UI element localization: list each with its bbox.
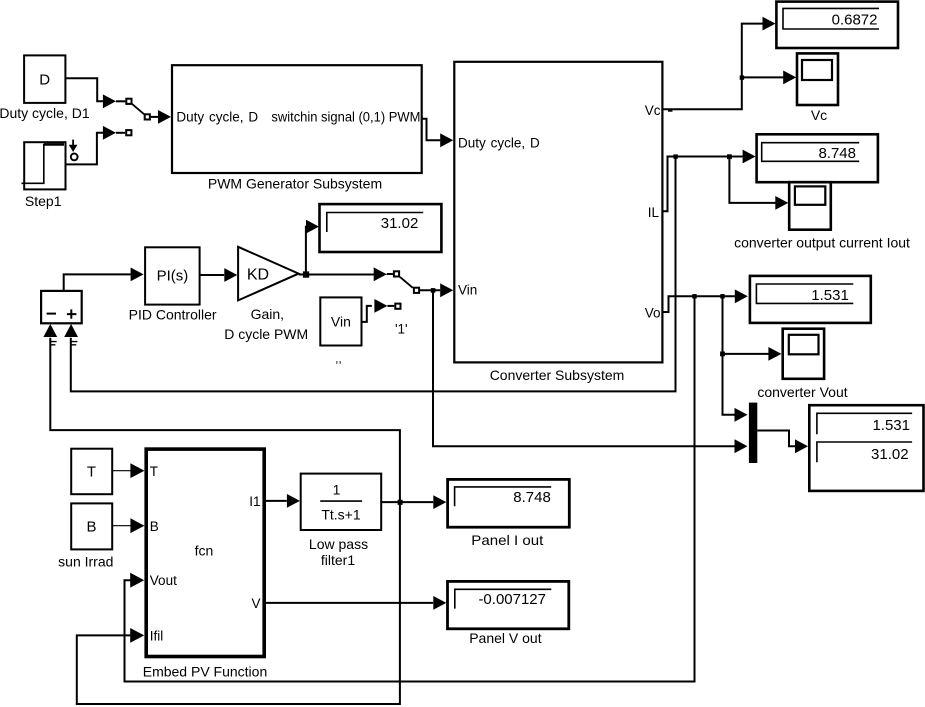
svg-text:31.02: 31.02: [871, 446, 909, 463]
dual display 1.531 / 31.02: [809, 405, 923, 491]
arrowhead into filter: [287, 494, 300, 508]
sum block (feedback comparator): [41, 291, 82, 323]
svg-text:D: D: [39, 72, 50, 89]
arrowhead into converter Duty cycle, D: [440, 133, 453, 147]
junction on gain output: [303, 271, 309, 277]
mux: [749, 403, 757, 463]
scope converter output current: [789, 182, 831, 230]
wire switch to PWM input: [151, 116, 159, 118]
svg-text:converter output current Iout: converter output current Iout: [734, 235, 910, 251]
svg-text:Tt.s+1: Tt.s+1: [321, 507, 361, 523]
svg-text:Panel V out: Panel V out: [469, 630, 541, 646]
wire IL branch to scope Iout: [729, 157, 775, 203]
arrowhead into display 31.02: [306, 220, 319, 234]
svg-text:1: 1: [333, 482, 341, 498]
wire T to PV function: [112, 470, 131, 472]
junction Vo long feedback: [692, 294, 696, 298]
junction Vc branch to scope: [740, 75, 744, 79]
svg-text:0.6872: 0.6872: [832, 11, 878, 28]
arrowhead into dual display: [795, 439, 808, 453]
arrowhead into scope converter Vout: [768, 347, 781, 361]
svg-text:Duty cycle, D: Duty cycle, D: [176, 110, 258, 125]
svg-text:8.748: 8.748: [818, 145, 856, 162]
svg-text:switchin signal (0,1) PWM: switchin signal (0,1) PWM: [271, 110, 420, 125]
display Panel V out -0.007127: [448, 581, 569, 628]
wire Vc branch to scope Vc: [742, 76, 784, 78]
wire Vo branch down to scope Vout and mux input 1: [723, 296, 735, 415]
arrowhead into B port: [130, 518, 144, 533]
svg-text:Panel I out: Panel I out: [471, 532, 543, 548]
junction filter output at x=400: [398, 500, 403, 505]
wire I1 to low pass filter: [264, 500, 287, 502]
wire gain output to switch: [299, 274, 375, 276]
svg-text:1.531: 1.531: [811, 287, 849, 304]
wire IL to display 8.748: [662, 157, 742, 212]
step source Step1: [22, 142, 66, 189]
subsystem Embed PV Function: [146, 449, 264, 656]
scope converter Vout: [783, 329, 824, 379]
wire Vc to display 0.6872: [662, 24, 762, 110]
svg-text:PI(s): PI(s): [157, 268, 189, 285]
svg-text:I1: I1: [249, 494, 260, 509]
wire filter output to Panel I out display: [381, 501, 433, 503]
stub wire: [387, 305, 394, 307]
wire Vo to display 1.531: [662, 296, 734, 312]
svg-text:Vc: Vc: [645, 103, 661, 118]
sum input plus: up arrowhead: [64, 324, 78, 337]
arrowhead into mux input 2: [735, 439, 748, 453]
arrowhead into Ifil port: [130, 628, 144, 643]
svg-text:D cycle PWM: D cycle PWM: [224, 326, 308, 342]
stub wire: [387, 273, 393, 275]
switch2 port square input 1: [394, 271, 399, 276]
gain KD triangle: [238, 247, 299, 301]
arrowhead into T port: [130, 463, 144, 478]
display 31.02: [320, 204, 442, 252]
constant T: [71, 449, 112, 495]
svg-text:B: B: [150, 519, 159, 534]
stub wire: [116, 100, 125, 102]
svg-text:Vin: Vin: [458, 283, 477, 298]
svg-text:fcn: fcn: [195, 543, 214, 559]
svg-text:B: B: [86, 519, 96, 536]
display Panel I out 8.748: [448, 479, 570, 527]
arrowhead into scope Iout: [775, 196, 788, 210]
svg-text:Converter Subsystem: Converter Subsystem: [490, 367, 625, 383]
svg-text:T: T: [87, 464, 96, 481]
svg-text:8.748: 8.748: [513, 489, 551, 506]
wire Vin branch down to mux input 2: [433, 290, 735, 446]
junction at scope Vout branch: [720, 352, 725, 357]
PID controller block PI(s): [145, 247, 200, 304]
junction Vo branch to scope and mux: [720, 294, 724, 298]
svg-text:T: T: [150, 464, 158, 479]
switch2 port square output: [414, 288, 419, 293]
svg-text:PWM Generator Subsystem: PWM Generator Subsystem: [208, 176, 382, 192]
svg-text:KD: KD: [247, 267, 269, 284]
svg-text:Vout: Vout: [150, 573, 177, 588]
svg-text:Step1: Step1: [25, 193, 62, 209]
junction IL line feedback branch: [673, 154, 677, 158]
constant Vin: [320, 297, 361, 345]
port tick Vc: [668, 110, 673, 112]
arrowhead into display 8.748: [743, 150, 756, 164]
wire sum output to PID input: [64, 274, 131, 291]
svg-text:Low pass: Low pass: [309, 536, 368, 552]
svg-text:Embed PV Function: Embed PV Function: [143, 664, 268, 680]
svg-text:Vc: Vc: [811, 107, 827, 123]
wire mux output to dual display: [757, 431, 795, 447]
svg-text:Duty cycle, D1: Duty cycle, D1: [0, 105, 90, 121]
display 8.748: [757, 134, 878, 182]
switch port square input 2: [126, 130, 131, 135]
svg-text:Gain,: Gain,: [251, 306, 284, 322]
junction IL branch to scope: [727, 154, 732, 159]
svg-text:Vin: Vin: [331, 314, 351, 330]
manual switch toggle indicator (down arrow and circle): [69, 140, 78, 161]
arrowhead into display 0.6872: [763, 17, 776, 31]
arrowhead switch input 1: [103, 94, 116, 108]
arrowhead switch2 input 1: [374, 267, 387, 281]
constant D: [24, 55, 65, 103]
svg-text:converter Vout: converter Vout: [757, 384, 847, 400]
wire IL feedback down and to sum plus input: [71, 157, 676, 392]
svg-text:Vo: Vo: [645, 306, 661, 321]
signal ticks on sum minus input: [50, 342, 56, 345]
arrowhead into converter Vin: [440, 283, 453, 297]
wire PWM output to converter Duty cycle input: [422, 119, 441, 141]
wire branch to scope converter Vout: [723, 353, 769, 355]
wire switch2 to converter Vin: [420, 289, 440, 291]
svg-text:'1': '1': [395, 322, 408, 337]
arrowhead into Panel V out: [433, 596, 446, 610]
junction on Vin wire: [431, 288, 436, 293]
svg-text:V: V: [251, 596, 260, 611]
svg-text:-0.007127: -0.007127: [478, 591, 546, 608]
arrowhead into display 1.531: [735, 289, 748, 303]
wire D to switch input 1: [65, 78, 104, 101]
wire junction up to display 31.02: [306, 227, 307, 272]
switch port square input 1: [126, 99, 131, 104]
wire Ifil feedback loop (filter output to sum minus and Ifil port): [50, 338, 400, 704]
wire Vin constant to switch2 input 2: [362, 306, 372, 322]
arrowhead into gain: [224, 268, 237, 282]
subsystem Converter: [454, 62, 662, 363]
svg-text:filter1: filter1: [321, 552, 355, 568]
wire V to Panel V out display: [264, 602, 433, 604]
signal ticks on sum plus input: [71, 342, 77, 345]
svg-text:Duty cycle, D: Duty cycle, D: [458, 135, 540, 150]
scope Vc: [797, 53, 838, 105]
sum input minus: up arrowhead: [43, 324, 57, 337]
wire B to PV function: [112, 525, 131, 527]
arrowhead into Vout port: [130, 573, 144, 588]
svg-text:IL: IL: [648, 205, 660, 220]
arrowhead switch input 2: [103, 126, 116, 140]
wire PID to gain: [200, 274, 225, 276]
subsystem PWM Generator: [172, 65, 422, 173]
svg-text:,,: ,,: [335, 352, 342, 366]
arrowhead into PID: [131, 268, 144, 282]
svg-text:Ifil: Ifil: [150, 629, 164, 644]
switch2 lever diagonal: [400, 277, 413, 288]
wire Vo feedback down to Vout input of PV function: [125, 296, 695, 681]
svg-text:PID Controller: PID Controller: [129, 307, 217, 323]
display 1.531: [750, 276, 871, 323]
transfer function Low pass filter1: [301, 474, 382, 530]
arrowhead into Panel I out: [433, 495, 446, 509]
arrowhead into scope Vc: [783, 71, 796, 85]
stub wire: [116, 132, 125, 134]
switch lever diagonal: [132, 104, 144, 115]
arrowhead switch2 input 2: [374, 299, 387, 313]
switch2 port square input 2: [395, 304, 400, 309]
svg-text:1.531: 1.531: [872, 417, 910, 434]
arrowhead into PWM subsystem: [158, 110, 171, 124]
constant B: [71, 503, 112, 549]
display 0.6872: [776, 2, 898, 48]
arrowhead into mux input 1: [735, 408, 748, 422]
svg-text:31.02: 31.02: [381, 215, 419, 232]
svg-text:sun Irrad: sun Irrad: [58, 554, 113, 570]
wire Step1 to switch input 2: [66, 133, 105, 165]
switch port square output: [145, 114, 150, 119]
